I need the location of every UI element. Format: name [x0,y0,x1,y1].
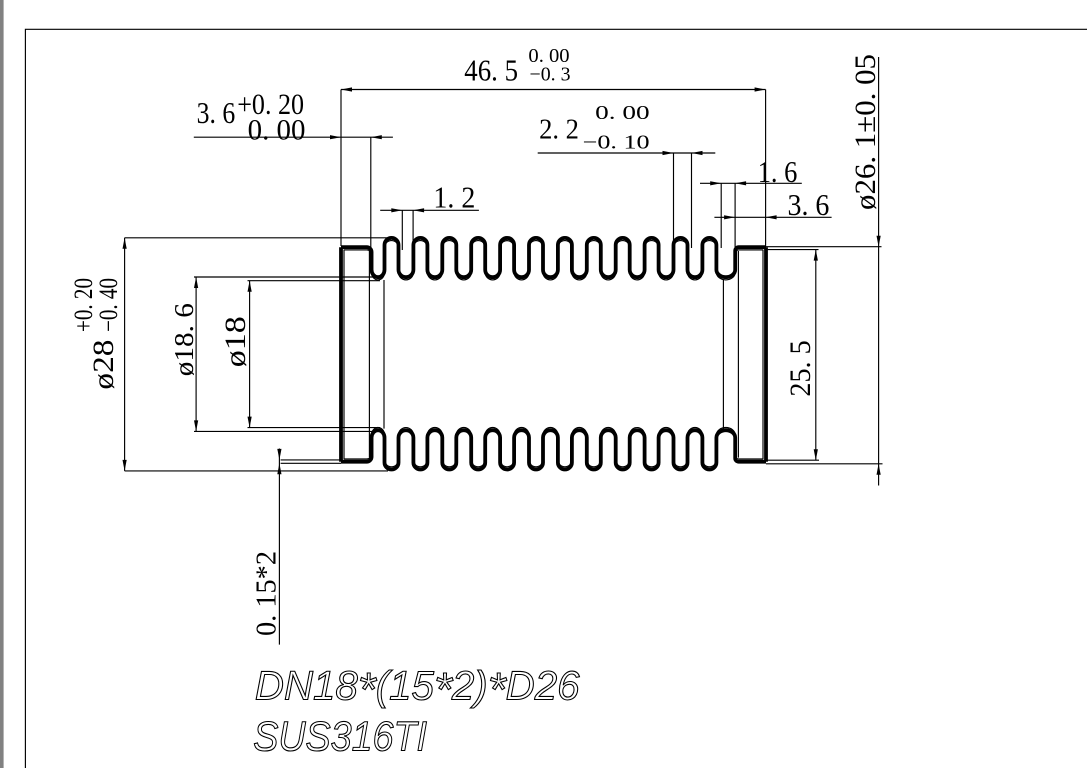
ext line 0.15x2 lower [281,462,341,464]
arrow phi26.1 top [877,236,881,247]
arrow 2.2 b [692,151,703,155]
arrow 3.6R b [766,215,777,219]
arrow phi18 top [248,281,252,292]
ext line 1.2 right [412,210,414,250]
svg-text:1. 2: 1. 2 [433,180,475,215]
bellows inner ply line top [344,241,763,280]
svg-text:ø28: ø28 [87,340,120,390]
step silhouette line last convolution [722,280,724,429]
arrow 3.6L b [371,135,382,139]
bellows outer profile top [341,238,766,277]
arrow 3.6R a [724,215,735,219]
ext line phi28 top [125,237,388,239]
ext line 3.6 right [370,137,372,250]
svg-text:SUS316TI: SUS316TI [253,713,427,760]
svg-text:ø18: ø18 [219,316,252,367]
dim 3.6 left line [194,136,393,138]
dim phi18.6 line [195,277,197,431]
dim phi26.1 line [878,57,880,486]
svg-text:3. 6: 3. 6 [197,95,236,130]
arrow 0.15x2 upper [277,449,281,460]
svg-text:ø26. 1±0. 05: ø26. 1±0. 05 [849,54,882,210]
ext line phi18 bottom [248,427,381,429]
dim 3.6 right line [714,216,831,218]
page edge gray strip [0,0,4,768]
arrow 1.2 a [391,208,402,212]
svg-text:0. 00: 0. 00 [595,102,650,124]
ext line phi28 bottom [125,470,388,472]
arrow phi28 top [123,238,127,249]
ext line 2.2 left [673,153,675,248]
step silhouette line right collar [737,251,739,458]
ext line 1.2 left [401,210,403,250]
left collar inner face line [343,250,345,460]
svg-text:0. 15*2: 0. 15*2 [252,551,283,636]
ext line 25.5 bottom [766,459,819,461]
ext line 1.6 right / 3.6R left shared [734,183,736,247]
svg-text:0. 00: 0. 00 [248,113,306,146]
step silhouette line left collar [368,251,370,458]
dim 2.2 line [538,152,716,154]
svg-text:−0. 40: −0. 40 [94,278,123,332]
ext line phi18.6 bottom [194,430,376,432]
dim 1.6 line [700,182,802,184]
ext line phi18.6 top [194,276,376,278]
arrow 3.6L a [330,135,341,139]
ext line phi26.1 bottom [766,463,883,465]
svg-text:3. 6: 3. 6 [788,187,830,222]
arrow 46.5 left [341,87,352,91]
svg-text:25. 5: 25. 5 [784,340,817,396]
right collar right face [764,247,768,462]
svg-text:2. 2: 2. 2 [539,114,579,145]
arrow 25.5 bottom [814,449,818,460]
arrow 25.5 top [814,250,818,261]
arrow 1.6 a [710,181,721,185]
ext line 25.5 top [766,249,819,251]
bellows inner ply line bottom [344,427,763,466]
arrow phi18.6 bottom [194,420,198,431]
ext line 1.6 left [720,183,722,248]
bellows outer profile bottom [341,430,766,469]
ext line 0.15x2 upper [281,459,341,461]
right collar inner face line [762,250,764,460]
dim phi28 line [124,238,126,471]
svg-text:−0. 3: −0. 3 [530,64,571,86]
arrow phi28 bottom [123,460,127,471]
svg-text:−0. 10: −0. 10 [583,132,650,154]
ext line 46.5 right / 3.6R right shared [765,90,767,247]
svg-text:46. 5: 46. 5 [464,53,518,88]
svg-text:ø18. 6: ø18. 6 [169,303,199,376]
dim 25.5 line [815,250,817,461]
ext line phi18 top [248,280,381,282]
step silhouette line first convolution [383,280,385,429]
left collar left face [339,247,343,462]
dim phi18 line [249,281,251,428]
arrow phi18.6 top [194,277,198,288]
dim 1.2 line [380,209,479,211]
ext line 46.5 left / 3.6 left shared [340,90,342,247]
arrow phi18 bottom [248,417,252,428]
ext line phi26.1 top [766,246,882,248]
svg-text:1. 6: 1. 6 [758,154,798,189]
arrow 1.2 b [413,208,424,212]
arrow phi26.1 bottom [877,464,881,475]
svg-text:DN18*(15*2)*D26: DN18*(15*2)*D26 [255,663,580,716]
arrow 1.6 b [735,181,746,185]
arrow 46.5 right [755,87,766,91]
dim 0.15x2 line [278,449,280,645]
arrow 0.15x2 lower [277,463,281,474]
ext line 2.2 right [691,153,693,248]
arrow 2.2 a [663,151,674,155]
dim 46.5 line [341,89,766,91]
